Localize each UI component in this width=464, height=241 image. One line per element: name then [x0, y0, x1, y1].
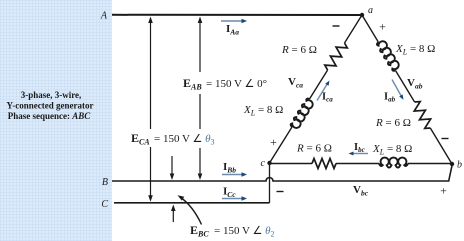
E_BC curved pointer	[180, 197, 202, 225]
svg-text:a: a	[368, 5, 373, 16]
svg-text:XL = 8 Ω: XL = 8 Ω	[243, 104, 283, 118]
svg-text:IBb: IBb	[223, 161, 236, 175]
node c	[267, 161, 271, 165]
svg-text:EAB: EAB	[183, 76, 202, 92]
svg-text:EBC: EBC	[190, 223, 209, 239]
voltage measure line E_CA	[150, 21, 152, 198]
wire resistor to inductor (branch a-c)	[310, 70, 328, 99]
wire inductor to node b	[408, 163, 452, 165]
panel caption	[7, 90, 94, 121]
wire node c to resistor (branch c-b)	[270, 163, 313, 165]
svg-text:ECA: ECA	[131, 131, 150, 147]
wire node a to inductor (branch a-b)	[362, 15, 378, 42]
node a	[360, 13, 364, 17]
svg-text:= 150 V ∠ 0°: = 150 V ∠ 0°	[206, 78, 267, 90]
svg-text:ICc: ICc	[223, 186, 236, 200]
svg-text:XL = 8 Ω: XL = 8 Ω	[372, 143, 412, 157]
svg-text:Vbc: Vbc	[353, 184, 369, 198]
phase line B	[112, 166, 452, 182]
svg-text:R = 6 Ω: R = 6 Ω	[281, 44, 317, 56]
inductor XL 8ohm branch a-b	[376, 39, 401, 72]
svg-text:b: b	[457, 160, 462, 171]
svg-text:C: C	[101, 199, 108, 210]
svg-text:3-phase, 3-wire,: 3-phase, 3-wire,	[21, 90, 82, 100]
E_BC indicator arrow onto line C	[172, 209, 174, 222]
svg-text:A: A	[100, 11, 108, 22]
svg-text:+: +	[270, 135, 277, 149]
current arrow I_Bb	[222, 174, 242, 176]
inductor XL 8ohm branch c-b	[379, 158, 408, 168]
svg-text:Phase sequence: ABC: Phase sequence: ABC	[8, 111, 92, 121]
wire inductor to node c	[270, 127, 293, 163]
svg-text:Ibc: Ibc	[354, 142, 365, 154]
current arrow I_Cc	[222, 198, 242, 200]
resistor R 6ohm branch a-c	[323, 40, 348, 72]
svg-text:Ica: Ica	[322, 92, 333, 104]
phase line C	[114, 202, 270, 204]
svg-text:Vca: Vca	[288, 76, 303, 90]
phase line A	[112, 14, 362, 16]
svg-text:Vab: Vab	[407, 77, 423, 91]
svg-text:= 150 V ∠ θ2: = 150 V ∠ θ2	[214, 225, 275, 239]
svg-text:R = 6 Ω: R = 6 Ω	[296, 143, 332, 155]
polarity minus near node b upper	[442, 138, 449, 140]
resistor R 6ohm branch a-b	[410, 99, 434, 130]
node b	[450, 162, 454, 166]
current arrow I_ab	[392, 80, 402, 97]
svg-text:IAa: IAa	[226, 23, 239, 37]
svg-text:R = 6 Ω: R = 6 Ω	[375, 117, 411, 129]
resistor R 6ohm branch c-b	[312, 159, 336, 169]
wire: riser from node c down to line C	[269, 163, 271, 203]
svg-text:c: c	[261, 158, 266, 169]
svg-text:= 150 V ∠ θ3: = 150 V ∠ θ3	[154, 133, 215, 147]
svg-text:XL = 8 Ω: XL = 8 Ω	[395, 43, 435, 57]
voltage measure line E_AB	[199, 21, 201, 176]
wire node a to resistor (branch a-c)	[345, 15, 363, 43]
svg-text:Iab: Iab	[384, 92, 396, 104]
svg-text:B: B	[102, 177, 108, 188]
generator info panel	[0, 0, 112, 241]
current arrow I_bc	[352, 153, 368, 155]
wire inductor to resistor (branch a-b)	[396, 71, 415, 103]
inductor XL 8ohm branch a-c	[289, 97, 314, 130]
svg-text:+: +	[379, 20, 386, 34]
wire resistor to inductor (branch c-b)	[336, 163, 379, 165]
E_BC indicator arrow onto line B	[171, 156, 173, 175]
current arrow I_Aa	[221, 20, 242, 22]
wire resistor to node b	[430, 128, 452, 164]
svg-text:+: +	[440, 184, 447, 198]
polarity minus at node a left	[333, 25, 340, 27]
polarity minus below node c (V_bc)	[277, 191, 284, 193]
current arrow I_ca	[317, 84, 328, 101]
svg-text:Y-connected generator: Y-connected generator	[7, 101, 94, 111]
